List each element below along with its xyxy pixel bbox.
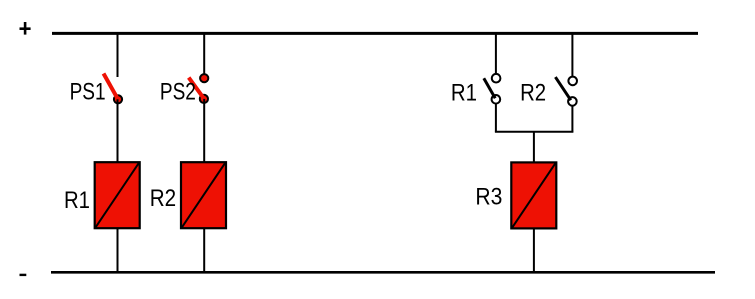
switch PS1 (pushbutton, open, actuated red)	[104, 74, 123, 104]
wire (contact R2 to junction)	[571, 106, 573, 132]
wire (top rail to switch PS1)	[117, 34, 119, 78]
wire (relay coil R1 to bottom rail)	[117, 228, 119, 272]
svg-text:PS2: PS2	[160, 79, 196, 106]
power rail - (bottom bus)	[51, 271, 715, 274]
wire (junction joining contacts R1 and R2)	[495, 131, 574, 133]
svg-text:R1: R1	[64, 187, 90, 214]
contact R2 (NO contact, open)	[555, 77, 577, 106]
wire (contact R1 to junction)	[495, 104, 497, 132]
wire (top rail to contact R1)	[495, 34, 497, 75]
relay coil R2	[181, 162, 226, 228]
power rail + (top bus)	[52, 32, 698, 35]
wire (switch PS1 to relay coil R1)	[117, 99, 119, 163]
switch PS2 (pushbutton, open, actuated red)	[189, 74, 209, 103]
wire (relay coil R3 to bottom rail)	[533, 228, 535, 272]
svg-text:PS1: PS1	[70, 79, 106, 106]
wire (top rail to switch PS2)	[203, 34, 205, 79]
contact R1 (NO contact, open)	[484, 74, 501, 104]
svg-text:R2: R2	[150, 185, 176, 212]
svg-text:R3: R3	[475, 184, 502, 211]
wire (junction to relay coil R3)	[533, 132, 535, 163]
wire (switch PS2 to relay coil R2)	[203, 99, 205, 163]
wire (relay coil R2 to bottom rail)	[203, 228, 205, 272]
plus terminal label	[20, 22, 31, 35]
relay coil R1	[95, 162, 140, 228]
svg-text:R1: R1	[451, 80, 477, 107]
wire (top rail to contact R2)	[571, 34, 573, 77]
relay coil R3	[511, 162, 556, 228]
svg-text:R2: R2	[520, 80, 546, 107]
minus terminal label	[20, 274, 27, 276]
